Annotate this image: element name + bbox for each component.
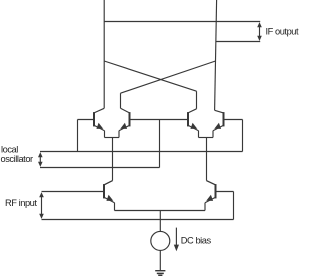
wire right pair tail to Q6 collector — [207, 138, 216, 185]
label DC bias — [181, 235, 212, 245]
wire diagonal left-rail to Q3 collector — [104, 61, 196, 91]
wire Q2-Q3 base join — [130, 119, 189, 121]
svg-text:DC bias: DC bias — [181, 235, 212, 245]
wire Q1 base to LO upper — [78, 120, 95, 152]
wire LO upper line — [40, 151, 243, 153]
wire right output rail vertical — [215, 0, 217, 110]
IF output span arrow — [257, 22, 262, 41]
transistor Q5 — [104, 181, 115, 211]
svg-text:oscillator: oscillator — [1, 154, 34, 164]
ground — [155, 271, 165, 276]
local oscillator span arrow — [38, 152, 43, 167]
wire current source to ground — [159, 250, 161, 270]
wire Q6 base loop — [216, 192, 234, 220]
wire diagonal right-rail to Q2 collector — [121, 61, 216, 93]
transistor Q6 — [205, 181, 216, 211]
svg-text:IF output: IF output — [266, 27, 300, 37]
wire RF lower line — [42, 219, 234, 221]
wire IF output top line — [104, 21, 260, 23]
wire IF output bottom line — [216, 41, 261, 43]
wire pair emitter join — [115, 210, 206, 212]
wire Q2 collector vertical — [120, 93, 122, 108]
wire right pair emitter join — [199, 137, 214, 139]
wire LO lower line — [40, 167, 160, 169]
wire RF upper line to Q5 base — [42, 191, 105, 193]
wire Q3 collector vertical — [196, 91, 198, 109]
wire left pair tail to Q5 collector — [104, 138, 113, 185]
label local oscillator — [1, 145, 34, 164]
RF input span arrow — [39, 192, 44, 219]
DC bias arrow — [174, 228, 179, 252]
label RF input — [5, 198, 37, 208]
transistor Q3 — [188, 109, 199, 138]
wire left pair emitter join — [105, 137, 120, 139]
label IF output — [266, 27, 300, 37]
wire tail to current source — [159, 211, 161, 232]
svg-text:RF input: RF input — [5, 198, 37, 208]
transistor Q4 — [213, 110, 224, 137]
transistor Q2 — [119, 108, 130, 137]
wire left output rail vertical — [103, 0, 105, 108]
current source I1 — [151, 231, 170, 250]
transistor Q1 — [94, 108, 105, 137]
wire Q4 base loop — [224, 120, 243, 152]
wire center tap to LO lower — [159, 120, 161, 168]
